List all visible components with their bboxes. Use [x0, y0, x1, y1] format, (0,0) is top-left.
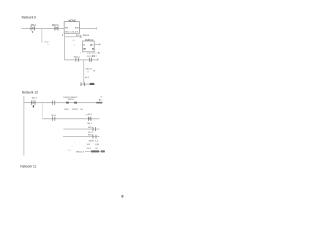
svg-text:M4.1: M4.1 [92, 55, 97, 57]
svg-text:LAD7: LAD7 [64, 108, 70, 111]
output end tick [95, 27, 98, 29]
wire box U2 output [94, 43, 100, 46]
wire drop to rung2 N10 [41, 103, 44, 119]
function box U1 [64, 22, 79, 34]
svg-text:Network 10: Network 10 [22, 90, 38, 94]
wire box output [79, 27, 96, 30]
svg-text:MW10.5: MW10.5 [76, 152, 85, 154]
wire branch B1 [64, 35, 81, 38]
svg-text:EN: EN [65, 28, 68, 30]
wire vertical V2 from rung2 [82, 60, 85, 84]
rung2 end tick [97, 59, 100, 61]
svg-text:MW 14: MW 14 [89, 141, 100, 143]
svg-text:M4.1: M4.1 [87, 123, 92, 125]
svg-text:4: 4 [47, 44, 49, 46]
svg-text:MW20: MW20 [68, 99, 75, 101]
pin IN1 [83, 44, 84, 45]
comparator box U2 [82, 41, 94, 52]
svg-text:M0.4: M0.4 [32, 97, 38, 99]
bottom coil wire [85, 150, 105, 153]
svg-text:9: 9 [121, 194, 124, 199]
comparator marks on rung [66, 102, 69, 104]
svg-text:M12.1: M12.1 [74, 56, 81, 58]
wire branch L2 [63, 128, 99, 131]
svg-text:LAD 7: LAD 7 [44, 41, 51, 44]
svg-text:Network 11: Network 11 [20, 164, 36, 168]
pin number below contact [32, 31, 33, 33]
node tick left of V1 [61, 34, 64, 36]
svg-text:M4: M4 [87, 144, 91, 146]
svg-text:1.2: 1.2 [73, 45, 77, 47]
svg-text:IN OUT: IN OUT [65, 32, 80, 34]
contact M1.3 [54, 26, 57, 30]
svg-text:2: 2 [71, 146, 73, 148]
contact I0.0 [30, 26, 33, 30]
svg-text:MOVE: MOVE [69, 19, 77, 22]
contact C [51, 117, 54, 121]
svg-text:1: 1 [102, 100, 104, 102]
final rung contact [80, 82, 83, 86]
wire rung2 N9 [64, 59, 98, 62]
svg-text:T41: T41 [80, 109, 84, 111]
wire final rung N9 [81, 83, 95, 86]
pin IN2 [83, 48, 85, 50]
final rung coil dark blob [90, 83, 95, 85]
svg-text:(.): (.) [87, 71, 89, 73]
svg-text:CMP==I: CMP==I [85, 40, 94, 42]
branch B1 end tick [80, 35, 83, 38]
tick right of labels [94, 70, 95, 71]
wire vertical V1 below box [63, 33, 66, 60]
svg-text:Network 9: Network 9 [22, 15, 37, 19]
svg-text:p5.6: p5.6 [85, 77, 90, 79]
pin number below contact T40 [90, 60, 91, 61]
svg-text:M4.0: M4.0 [92, 53, 97, 55]
pin IN1 value [90, 44, 92, 46]
svg-text:1: 1 [74, 142, 76, 144]
svg-text:MW14: MW14 [83, 35, 90, 37]
contact T40 [88, 58, 91, 62]
left power rail N10 [23, 96, 26, 156]
svg-text:ENO: ENO [75, 28, 80, 30]
wire rung1 N10 [24, 101, 103, 104]
wire branch drop [41, 29, 44, 43]
svg-text:MW22: MW22 [72, 109, 79, 111]
svg-text:p.06.1: p.06.1 [86, 114, 93, 116]
wire branch L3 [63, 135, 100, 138]
box U2 output end tick [99, 43, 102, 45]
svg-text:T42: T42 [95, 148, 99, 150]
svg-text:DB20.3: DB20.3 [85, 68, 93, 70]
wire rung1 N9 [21, 27, 64, 30]
wire rung2 N10 [42, 117, 99, 120]
svg-text:4.0: 4.0 [72, 40, 76, 42]
svg-text:M4.2: M4.2 [87, 148, 92, 150]
contact M2.1 [75, 58, 78, 62]
contact B [51, 101, 54, 105]
contact E [92, 127, 95, 131]
contact A [30, 101, 33, 105]
svg-text:LAD: LAD [67, 149, 71, 152]
contact F [92, 135, 95, 139]
pin number below contact A [33, 105, 34, 107]
svg-text:4: 4 [80, 52, 82, 54]
bottom coil marks [91, 150, 99, 152]
contact D [87, 117, 90, 121]
coil segment dark [96, 102, 102, 104]
svg-text:M 4.1: M 4.1 [88, 132, 94, 134]
svg-text:4(A): 4(A) [95, 143, 99, 146]
svg-text:A1: A1 [98, 51, 101, 54]
pin IN2 value [92, 48, 94, 50]
svg-text:M5: M5 [100, 97, 104, 99]
svg-text:M0.2: M0.2 [31, 25, 37, 27]
